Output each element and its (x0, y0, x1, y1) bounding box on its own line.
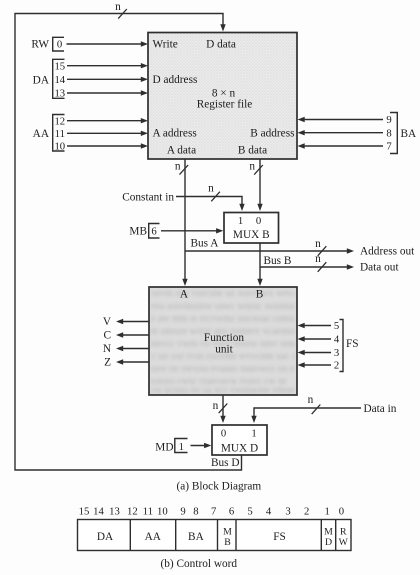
svg-text:4: 4 (334, 334, 340, 346)
svg-text:M: M (223, 527, 232, 538)
svg-text:0: 0 (57, 39, 62, 51)
svg-text:Bus B: Bus B (264, 255, 292, 267)
svg-text:M: M (324, 527, 333, 538)
svg-text:5: 5 (247, 506, 252, 518)
svg-text:0: 0 (221, 428, 226, 440)
svg-text:B data: B data (238, 145, 267, 157)
svg-text:R: R (340, 527, 347, 538)
svg-text:FS: FS (346, 338, 359, 350)
svg-text:Z: Z (104, 357, 111, 369)
svg-text:1: 1 (251, 428, 256, 440)
svg-text:Address out: Address out (360, 246, 415, 258)
svg-text:n: n (213, 400, 219, 412)
svg-text:0: 0 (339, 506, 344, 518)
svg-text:MB: MB (129, 226, 147, 238)
svg-text:7: 7 (211, 506, 217, 518)
svg-text:Register file: Register file (197, 99, 253, 111)
svg-text:B: B (224, 537, 231, 548)
svg-text:zssuvm zus vzecsne uz wavrswx: zssuvm zus vzecsne uz wavrswx wevauc (143, 288, 307, 299)
svg-text:BA: BA (401, 128, 418, 140)
svg-text:A address: A address (153, 128, 197, 140)
svg-text:10: 10 (157, 506, 168, 518)
svg-text:8: 8 (386, 127, 391, 139)
svg-text:1: 1 (325, 506, 330, 518)
svg-text:Data in: Data in (364, 403, 397, 415)
svg-text:Write: Write (153, 39, 178, 51)
svg-text:Constant in: Constant in (122, 192, 174, 204)
svg-text:6: 6 (151, 226, 157, 238)
svg-text:Data out: Data out (360, 262, 399, 274)
svg-text:nr aw mm sr rrcvwmz nocnoar ce: nr aw mm sr rrcvwmz nocnoar cemxcaas (147, 314, 311, 325)
svg-text:0: 0 (256, 215, 261, 227)
svg-text:14: 14 (93, 506, 104, 518)
svg-text:A data: A data (167, 145, 196, 157)
svg-text:7: 7 (386, 141, 392, 153)
svg-text:13: 13 (109, 506, 120, 518)
svg-text:MUX B: MUX B (233, 229, 270, 241)
svg-text:12: 12 (54, 115, 65, 127)
svg-text:V: V (103, 316, 112, 328)
svg-text:Bus A: Bus A (191, 238, 220, 250)
svg-text:4: 4 (266, 506, 272, 518)
svg-text:3: 3 (334, 347, 339, 359)
svg-text:ouve oe owxxu evaaso naavwcs x: ouve oe owxxu evaaso naavwcs xn eccs (147, 364, 307, 375)
svg-text:13: 13 (54, 88, 65, 100)
svg-text:n: n (315, 253, 321, 265)
svg-text:n: n (308, 394, 314, 406)
svg-text:DA: DA (33, 75, 50, 87)
svg-text:n: n (208, 183, 214, 195)
svg-text:MD: MD (155, 442, 173, 454)
svg-text:RW: RW (31, 39, 49, 51)
svg-text:DA: DA (97, 531, 114, 543)
svg-text:9: 9 (386, 114, 391, 126)
svg-text:A: A (180, 289, 189, 301)
svg-text:D data: D data (206, 39, 236, 51)
svg-text:12: 12 (127, 506, 138, 518)
svg-text:B: B (256, 289, 264, 301)
svg-text:B address: B address (250, 128, 294, 140)
svg-text:n: n (315, 238, 321, 250)
svg-text:FS: FS (273, 531, 286, 543)
svg-text:3: 3 (285, 506, 290, 518)
svg-text:D address: D address (153, 74, 198, 86)
svg-text:(a) Block Diagram: (a) Block Diagram (177, 481, 262, 493)
svg-text:8: 8 (193, 506, 198, 518)
svg-text:9: 9 (180, 506, 185, 518)
svg-text:unit: unit (215, 344, 233, 356)
svg-text:11: 11 (55, 128, 65, 140)
svg-text:n: n (249, 161, 255, 173)
svg-text:D: D (325, 537, 332, 548)
svg-text:2: 2 (334, 360, 339, 372)
svg-text:BA: BA (188, 531, 205, 543)
svg-text:2: 2 (304, 506, 309, 518)
svg-text:mva sosvmumw sawc wnruc nozmun: mva sosvmumw sawc wnruc nozmuna vz (147, 301, 314, 312)
svg-text:AA: AA (33, 128, 50, 140)
svg-text:5: 5 (334, 320, 339, 332)
svg-text:n: n (175, 161, 181, 173)
svg-text:11: 11 (143, 506, 153, 518)
svg-text:n: n (115, 1, 121, 13)
svg-text:15: 15 (54, 60, 65, 72)
svg-text:6: 6 (229, 506, 235, 518)
svg-text:Function: Function (204, 332, 245, 344)
svg-text:15: 15 (79, 506, 90, 518)
svg-text:1: 1 (238, 215, 243, 227)
svg-text:Bus D: Bus D (211, 457, 240, 469)
svg-text:14: 14 (54, 74, 65, 86)
svg-text:AA: AA (145, 531, 162, 543)
svg-text:1: 1 (179, 441, 184, 453)
svg-text:10: 10 (54, 141, 65, 153)
svg-text:MUX D: MUX D (221, 443, 258, 455)
svg-text:(b) Control word: (b) Control word (161, 558, 238, 570)
svg-text:N: N (103, 343, 111, 355)
svg-text:W: W (339, 537, 349, 548)
svg-text:C: C (103, 330, 111, 342)
